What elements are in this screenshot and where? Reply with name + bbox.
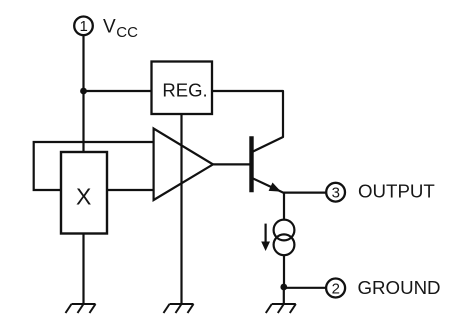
svg-text:GROUND: GROUND bbox=[358, 277, 441, 298]
emitter arrowhead bbox=[269, 183, 281, 192]
node ground junction bbox=[280, 284, 287, 291]
wire amp input loop top bbox=[34, 142, 154, 190]
svg-text:2: 2 bbox=[332, 280, 340, 297]
node VCC junction bbox=[80, 88, 87, 95]
svg-text:REG.: REG. bbox=[162, 80, 207, 101]
op-amp bbox=[154, 129, 213, 201]
wire junction to X top bbox=[82, 91, 84, 153]
wire junction to pin 2 bbox=[284, 287, 326, 289]
hall element X bbox=[61, 152, 107, 234]
wire X bottom to ground bbox=[82, 234, 84, 305]
pin 3 bbox=[326, 183, 345, 202]
ground (right) bbox=[266, 304, 296, 313]
wire REG output to transistor collector bbox=[212, 91, 283, 152]
svg-text:3: 3 bbox=[332, 185, 340, 202]
wire current source to ground junction bbox=[283, 255, 285, 288]
svg-text:X: X bbox=[76, 184, 91, 210]
transistor Q1 bbox=[252, 136, 285, 193]
svg-text:CC: CC bbox=[116, 24, 138, 41]
wire emitter node to current source bbox=[283, 193, 285, 220]
wire junction to REG bbox=[84, 90, 152, 92]
current source I1 bbox=[274, 220, 295, 256]
pin 2 bbox=[326, 279, 345, 298]
wire REG bottom through amp to ground bbox=[180, 114, 182, 304]
current direction arrow bbox=[261, 224, 270, 251]
pin 1 bbox=[74, 17, 93, 36]
wire junction to ground bbox=[283, 287, 285, 304]
wire amp output to base bbox=[213, 163, 250, 165]
svg-text:OUTPUT: OUTPUT bbox=[358, 180, 435, 201]
regulator block REG. bbox=[152, 62, 213, 115]
label VCC bbox=[103, 16, 138, 41]
wire VCC pin to junction bbox=[82, 35, 84, 92]
ground (left) bbox=[66, 304, 96, 313]
svg-text:1: 1 bbox=[80, 18, 88, 35]
svg-text:V: V bbox=[103, 16, 116, 37]
wire X to amp input bbox=[107, 189, 154, 191]
ground (middle) bbox=[164, 304, 194, 313]
wire emitter node to pin 3 bbox=[283, 192, 326, 194]
